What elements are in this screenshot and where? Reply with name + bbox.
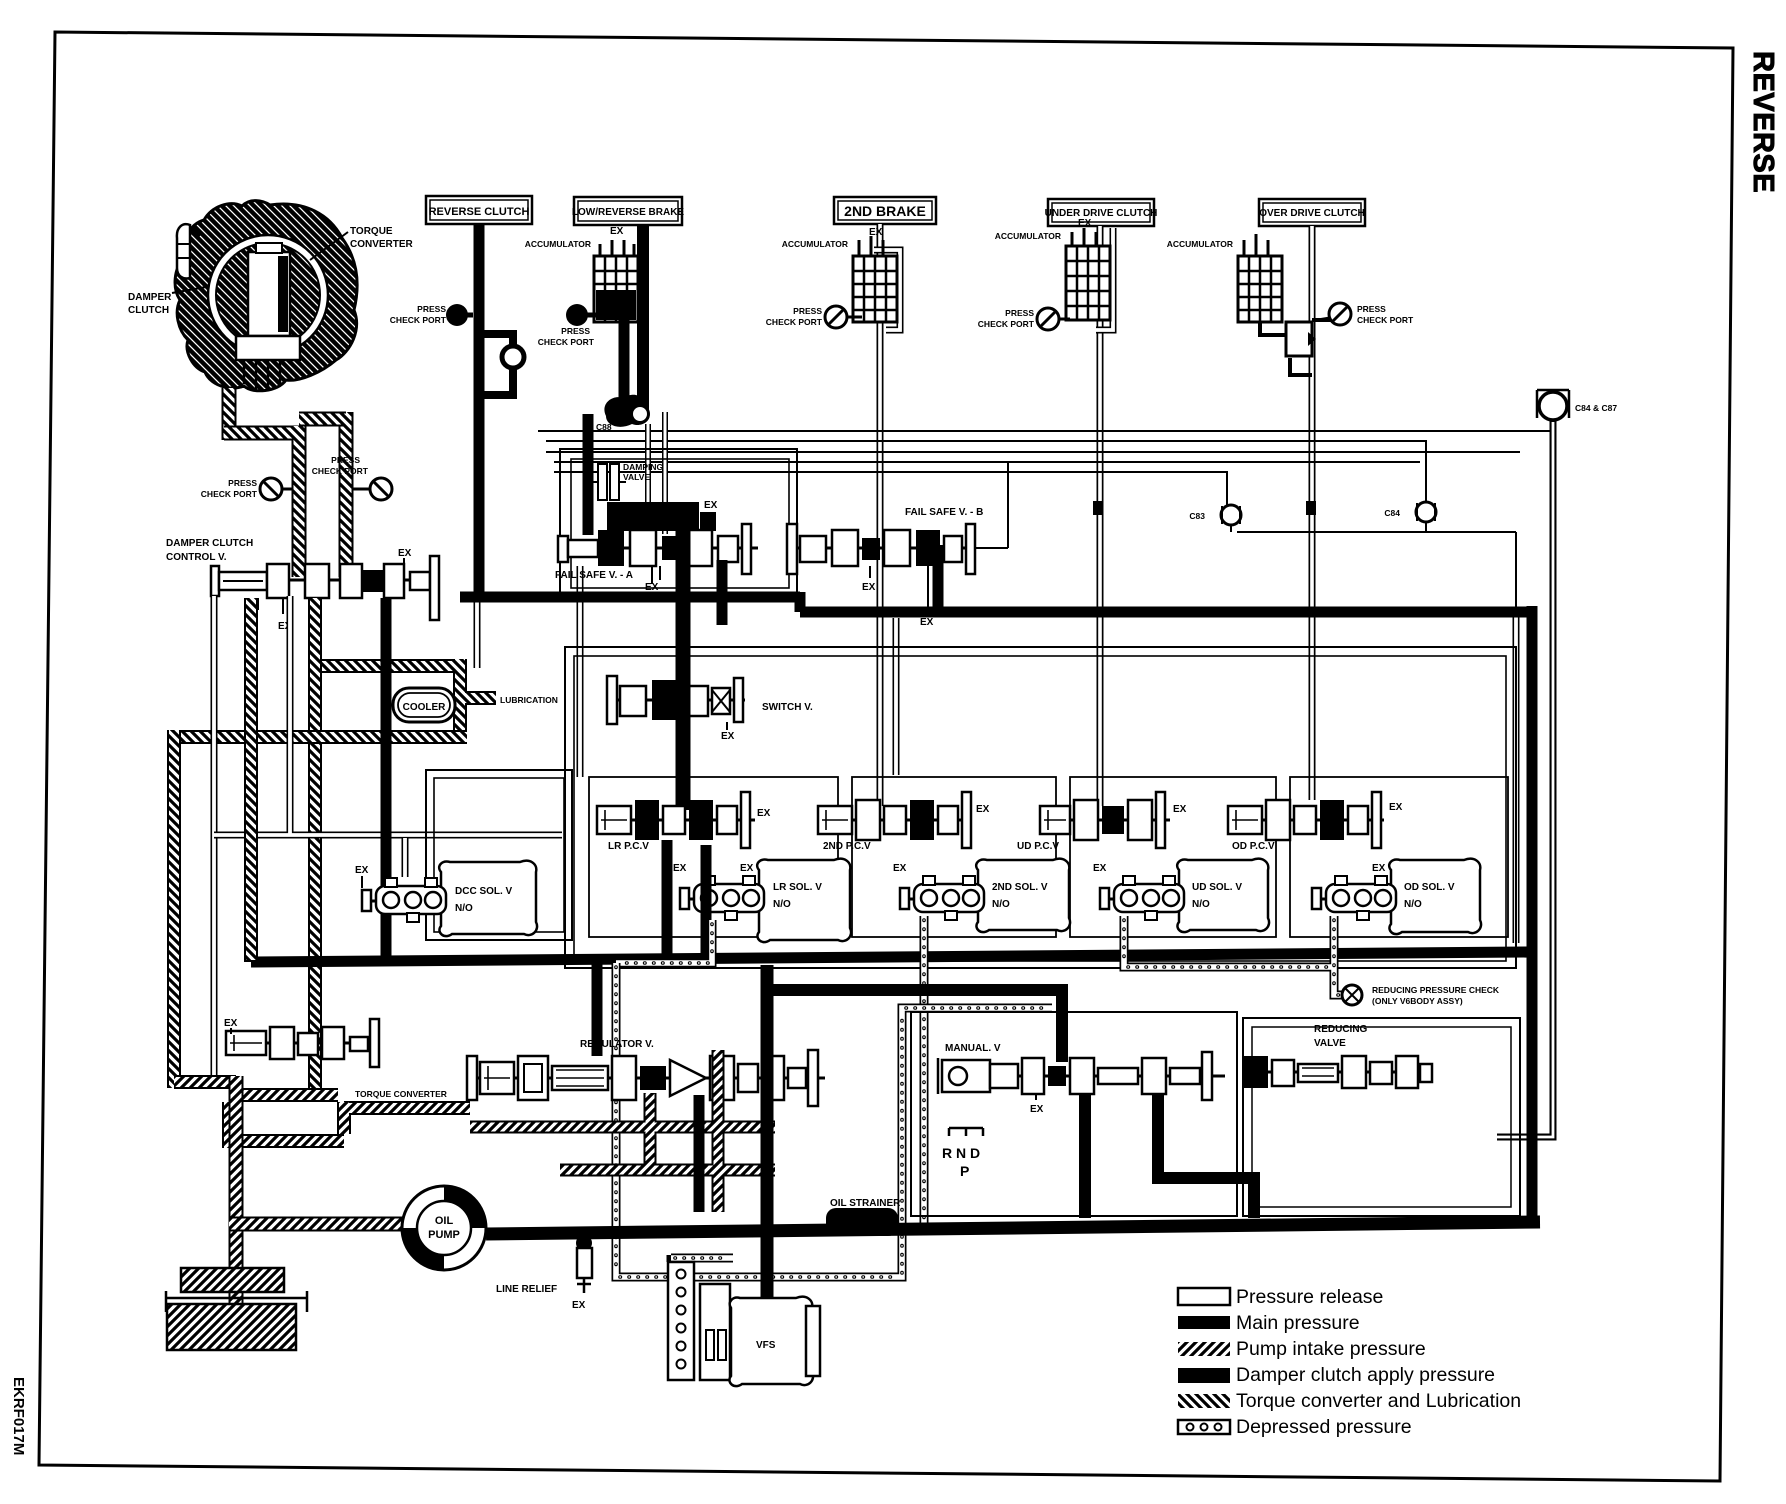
pipe TC return leg down to regulator U-block: [308, 598, 322, 1098]
press check port (over drive): [1318, 303, 1414, 325]
legend damper clutch apply pressure: [1178, 1368, 1230, 1383]
reducing pressure check port: [1342, 985, 1500, 1006]
wire reverse line stub below bus: [474, 600, 481, 668]
wire 2nd module feed below bus: [893, 618, 900, 775]
svg-text:EX: EX: [740, 863, 754, 874]
port C88: [596, 395, 650, 432]
enclosure UD module box: [1070, 777, 1276, 937]
pipe suction from oil pan: [229, 1076, 244, 1310]
legend depressed pressure: [1178, 1420, 1230, 1434]
svg-text:CHECK PORT: CHECK PORT: [538, 337, 595, 347]
torque converter body: [175, 201, 357, 391]
svg-text:Pump intake pressure: Pump intake pressure: [1236, 1338, 1426, 1360]
enclosure LR module box: [589, 777, 838, 937]
svg-text:CLUTCH: CLUTCH: [128, 305, 169, 316]
wire thin box right of valve: [214, 596, 562, 835]
wire left hatch drop to lower bus: [244, 732, 258, 962]
valve torque converter control spool: [224, 1018, 447, 1099]
node REVERSE CLUTCH box: [426, 196, 532, 224]
line relief valve: [496, 1235, 592, 1311]
svg-text:EX: EX: [893, 863, 907, 874]
oil pan: [166, 1268, 307, 1350]
svg-text:CHECK PORT: CHECK PORT: [201, 489, 258, 499]
svg-text:PRESS: PRESS: [561, 326, 590, 336]
wire reverse clutch main line: [474, 224, 485, 600]
solenoid DCC SOL V N/O: [355, 861, 537, 936]
press check port (reverse clutch): [390, 304, 473, 326]
wire OD module feed below bus: [1513, 614, 1520, 943]
node LOW/REVERSE BRAKE box: [572, 197, 685, 225]
svg-text:UD P.C.V: UD P.C.V: [1017, 841, 1059, 852]
wire main bus lower (below module row): [251, 952, 1532, 962]
press check port (damper clutch release): [201, 478, 292, 500]
svg-text:TORQUE: TORQUE: [350, 226, 393, 237]
svg-text:EX: EX: [398, 548, 412, 559]
legend torque converter and lubrication: [1178, 1394, 1230, 1408]
wire thin pair down to LR PCV: [577, 566, 584, 777]
wire bundle line 3: [546, 451, 1520, 453]
svg-text:N/O: N/O: [992, 899, 1010, 910]
svg-text:CONVERTER: CONVERTER: [350, 239, 414, 250]
wire regulator black drop: [694, 1095, 705, 1212]
svg-text:N/O: N/O: [1192, 899, 1210, 910]
valve reducing valve spool: [1242, 1056, 1432, 1088]
svg-text:LR SOL. V: LR SOL. V: [773, 882, 822, 893]
svg-text:EX: EX: [610, 226, 624, 237]
svg-text:EX: EX: [862, 582, 876, 593]
enclosure manual valve box: [911, 1012, 1237, 1216]
svg-text:MANUAL. V: MANUAL. V: [945, 1043, 1001, 1054]
junction OD line orifice: [1306, 501, 1316, 515]
pipe TC right leg down: [339, 412, 354, 577]
enclosure DCC module box: [426, 770, 572, 940]
pipe regulator bypass hatched right: [470, 1050, 775, 1212]
svg-text:EX: EX: [224, 1018, 238, 1029]
wire depressed 2nd solenoid drop: [920, 916, 929, 1228]
svg-text:EX: EX: [869, 227, 883, 238]
oil pump: [402, 1186, 486, 1270]
svg-text:OVER DRIVE CLUTCH: OVER DRIVE CLUTCH: [1259, 208, 1365, 219]
svg-text:EX: EX: [757, 808, 771, 819]
svg-text:COOLER: COOLER: [403, 702, 447, 713]
svg-text:Damper clutch apply pressure: Damper clutch apply pressure: [1236, 1364, 1495, 1386]
port C84 & C87: [1537, 390, 1617, 420]
svg-text:C88: C88: [596, 422, 612, 432]
svg-text:FAIL SAFE V. - B: FAIL SAFE V. - B: [905, 507, 983, 518]
press check port (under drive): [978, 308, 1070, 330]
svg-text:TORQUE CONVERTER: TORQUE CONVERTER: [355, 1089, 447, 1099]
svg-text:EX: EX: [1078, 218, 1092, 229]
node 2ND BRAKE box: [834, 197, 936, 224]
svg-text:2ND SOL. V: 2ND SOL. V: [992, 882, 1048, 893]
svg-text:CHECK PORT: CHECK PORT: [766, 317, 823, 327]
svg-text:PRESS: PRESS: [417, 304, 446, 314]
svg-text:ACCUMULATOR: ACCUMULATOR: [782, 239, 848, 249]
node UNDER DRIVE CLUTCH box: [1045, 199, 1158, 226]
svg-text:R N D: R N D: [942, 1145, 980, 1161]
svg-text:PRESS: PRESS: [331, 455, 360, 465]
enclosure valve body outer: [565, 647, 1516, 968]
wire depressed LR solenoid drop: [616, 920, 712, 963]
svg-text:OD P.C.V: OD P.C.V: [1232, 841, 1275, 852]
valve LR P.C.V spool: [597, 792, 771, 852]
svg-text:VALVE: VALVE: [1314, 1038, 1346, 1049]
pipe TC bottom left down: [222, 388, 237, 440]
svg-text:DAMPER: DAMPER: [128, 292, 172, 303]
valve 2ND P.C.V spool: [818, 792, 990, 852]
svg-text:P: P: [960, 1163, 969, 1179]
wire bundle line 1: [538, 430, 1556, 432]
svg-text:Pressure release: Pressure release: [1236, 1286, 1383, 1308]
wire UD accumulator stub: [1096, 228, 1113, 330]
accumulator L/R brake: [525, 226, 638, 322]
pipe cooler top run: [311, 659, 496, 730]
svg-text:N/O: N/O: [773, 899, 791, 910]
svg-text:(ONLY V6BODY ASSY): (ONLY V6BODY ASSY): [1372, 996, 1463, 1006]
valve regulator V spool: [467, 1050, 825, 1106]
svg-text:EX: EX: [721, 731, 735, 742]
svg-text:EX: EX: [976, 804, 990, 815]
svg-text:LOW/REVERSE BRAKE: LOW/REVERSE BRAKE: [572, 207, 685, 218]
legend pump intake pressure: [1178, 1342, 1230, 1356]
svg-text:EX: EX: [1372, 863, 1386, 874]
svg-text:PRESS: PRESS: [793, 306, 822, 316]
press check port (L/R brake): [538, 304, 600, 347]
wire main bus right vertical: [1527, 606, 1538, 1224]
svg-text:REVERSE: REVERSE: [1747, 51, 1779, 193]
VFS body: [729, 1297, 820, 1386]
svg-text:Depressed pressure: Depressed pressure: [1236, 1416, 1412, 1438]
svg-text:OIL: OIL: [435, 1215, 454, 1227]
svg-text:SWITCH V.: SWITCH V.: [762, 702, 813, 713]
press check port (2nd brake): [766, 306, 862, 328]
wire over drive clutch line (pressure release): [1309, 226, 1316, 800]
svg-text:CHECK PORT: CHECK PORT: [1357, 315, 1414, 325]
wire depressed VFS stub: [671, 1255, 733, 1262]
svg-text:CHECK PORT: CHECK PORT: [978, 319, 1035, 329]
wire fail safe B heavy drop to bus: [933, 545, 944, 612]
svg-text:2ND P.C.V: 2ND P.C.V: [823, 841, 871, 852]
svg-text:VFS: VFS: [756, 1340, 776, 1351]
svg-text:EX: EX: [1389, 802, 1403, 813]
wire regulator feed from bus: [592, 957, 603, 1056]
svg-text:CHECK PORT: CHECK PORT: [390, 315, 447, 325]
solenoid UD SOL V N/O: [1093, 859, 1269, 932]
wire fail safe B right feed from bundle: [975, 462, 1008, 548]
valve manual V spool: [938, 1052, 1225, 1115]
svg-text:DAMPING: DAMPING: [623, 462, 664, 472]
valve UD P.C.V spool: [1017, 792, 1187, 852]
svg-text:ACCUMULATOR: ACCUMULATOR: [1167, 239, 1233, 249]
svg-text:EX: EX: [1093, 863, 1107, 874]
svg-text:PUMP: PUMP: [428, 1229, 460, 1241]
wire thin pair C88 down to spool: [648, 412, 665, 534]
svg-text:REGULATOR V.: REGULATOR V.: [580, 1039, 654, 1050]
svg-text:ACCUMULATOR: ACCUMULATOR: [525, 239, 591, 249]
legend main pressure: [1178, 1316, 1230, 1329]
svg-text:PRESS: PRESS: [1005, 308, 1034, 318]
wire thin left drop from valve: [211, 596, 218, 1085]
wire VFS heavy drop: [761, 965, 774, 1297]
accumulator under drive: [995, 218, 1110, 320]
svg-text:EX: EX: [1030, 1104, 1044, 1115]
pipe lubrication bottom run: [174, 730, 467, 744]
enclosure fail safe A: [560, 449, 797, 596]
solenoid LR SOL V N/O: [673, 859, 851, 942]
enclosure 2ND module box: [852, 777, 1056, 937]
valve fail safe V.-B spool: [787, 507, 983, 628]
svg-text:LR P.C.V: LR P.C.V: [608, 841, 649, 852]
wire bundle line 4: [554, 461, 1420, 463]
svg-text:EX: EX: [920, 617, 934, 628]
wire DCC solenoid feed stub: [402, 838, 409, 877]
wire main pressure bottom bus / oil strainer: [486, 1222, 1540, 1234]
svg-text:ACCUMULATOR: ACCUMULATOR: [995, 231, 1061, 241]
enclosure reducing valve box: [1243, 1018, 1520, 1216]
cooler: [393, 688, 455, 722]
svg-text:LINE RELIEF: LINE RELIEF: [496, 1284, 557, 1295]
svg-text:CONTROL V.: CONTROL V.: [166, 552, 227, 563]
valve damping valve: [593, 464, 626, 500]
wire 2nd accumulator stub: [874, 250, 900, 330]
wire LR PCV drops to lower bus (heavy): [662, 840, 673, 958]
press check port (damper clutch apply): [312, 455, 392, 500]
svg-text:Main pressure: Main pressure: [1236, 1312, 1360, 1334]
pipe TC elbow to damper control valve: [224, 426, 299, 577]
solenoid 2ND SOL V N/O: [893, 859, 1070, 932]
wire fail safe A supply chamber (heavy block): [607, 502, 699, 531]
svg-text:REVERSE CLUTCH: REVERSE CLUTCH: [429, 206, 530, 218]
label DAMPER CLUTCH: [128, 287, 206, 316]
valve OD P.C.V spool: [1228, 792, 1403, 852]
valve damper clutch control V spool: [211, 548, 439, 632]
svg-text:EX: EX: [673, 863, 687, 874]
svg-text:OD SOL. V: OD SOL. V: [1404, 882, 1455, 893]
svg-text:CHECK PORT: CHECK PORT: [312, 466, 369, 476]
solenoid OD SOL V N/O: [1312, 859, 1481, 934]
svg-text:REDUCING: REDUCING: [1314, 1024, 1368, 1035]
svg-text:C84: C84: [1384, 508, 1400, 518]
wire L/R accumulator tee: [616, 255, 643, 280]
svg-text:C84 & C87: C84 & C87: [1575, 403, 1617, 413]
wire low/reverse brake main line: [637, 225, 649, 412]
svg-text:PRESS: PRESS: [1357, 304, 1386, 314]
accumulator 2nd brake: [782, 227, 897, 322]
svg-text:UD SOL. V: UD SOL. V: [1192, 882, 1242, 893]
pipe left return leg: [167, 730, 181, 1088]
wire right tall line C84&C87 down to reducing valve: [1497, 420, 1553, 1137]
svg-text:DAMPER CLUTCH: DAMPER CLUTCH: [166, 538, 253, 549]
wire fail safe A right heavy drop: [717, 560, 728, 625]
svg-text:EX: EX: [572, 1300, 586, 1311]
wire reverse clutch branch loop: [481, 334, 513, 395]
wire 2nd brake line (pressure release): [877, 224, 884, 806]
valve switch V spool: [607, 676, 813, 742]
wire under drive clutch line (pressure release): [1097, 226, 1104, 806]
pipe lubrication left elbow: [174, 1075, 236, 1089]
wire L/R accumulator heavy drop to C88: [619, 320, 630, 406]
svg-text:EKRF017M: EKRF017M: [10, 1377, 27, 1455]
svg-text:EX: EX: [704, 500, 718, 511]
svg-text:N/O: N/O: [455, 903, 473, 914]
pipe pump intake horizontal: [229, 1217, 410, 1232]
wire damper apply feed (heavy): [583, 414, 594, 535]
svg-text:PRESS: PRESS: [228, 478, 257, 488]
pipe regulator to TC (hatched loop): [229, 1095, 470, 1148]
wire bundle line 2: [546, 441, 1426, 502]
svg-text:OIL STRAINER: OIL STRAINER: [830, 1198, 901, 1209]
pipe damper control left leg down (pump intake style): [244, 598, 258, 732]
wire depressed oil strainer loop: [616, 963, 1052, 1277]
wire solid black drop from valve to main bus: [381, 598, 392, 958]
check ball on reverse loop: [502, 346, 524, 368]
enclosure OD module box: [1290, 777, 1508, 937]
svg-text:EX: EX: [355, 865, 369, 876]
wire main bus upper: [460, 592, 1532, 612]
label damping valve: [623, 462, 664, 482]
accumulator over drive: [1167, 234, 1282, 322]
VFS solenoid block: [668, 1262, 730, 1380]
svg-text:VALVE: VALVE: [623, 472, 650, 482]
svg-text:N/O: N/O: [1404, 899, 1422, 910]
svg-text:DCC SOL. V: DCC SOL. V: [455, 886, 513, 897]
port C83: [1189, 505, 1241, 532]
svg-text:FAIL SAFE V. - A: FAIL SAFE V. - A: [555, 570, 633, 581]
wire damper apply heavy vertical through switch V: [676, 520, 691, 810]
svg-text:C83: C83: [1189, 511, 1205, 521]
svg-text:LUBRICATION: LUBRICATION: [500, 695, 558, 705]
left small bump: [177, 224, 190, 278]
junction UD line orifice: [1093, 501, 1103, 515]
wire depressed UD solenoid drop + cross run: [1124, 916, 1355, 995]
svg-text:Torque converter and Lubricati: Torque converter and Lubrication: [1236, 1390, 1521, 1412]
manual lever positions R N D P: [942, 1128, 983, 1179]
svg-text:REDUCING PRESSURE CHECK: REDUCING PRESSURE CHECK: [1372, 985, 1500, 995]
wire C83-C84 link line to bus: [1237, 532, 1516, 612]
wire bundle line 5: [554, 472, 1227, 505]
svg-text:EX: EX: [1173, 804, 1187, 815]
wire manual valve heavy link: [767, 984, 1254, 1218]
svg-text:2ND BRAKE: 2ND BRAKE: [844, 203, 926, 219]
label TORQUE CONVERTER: [310, 226, 414, 260]
port C84: [1384, 502, 1436, 532]
legend pressure release: [1178, 1288, 1230, 1305]
node OVER DRIVE CLUTCH box: [1259, 199, 1365, 226]
valve fail safe V.-A spool: [555, 500, 758, 593]
svg-text:UNDER DRIVE CLUTCH: UNDER DRIVE CLUTCH: [1045, 208, 1158, 219]
wire OD press check tee with orifice box: [1260, 320, 1335, 375]
